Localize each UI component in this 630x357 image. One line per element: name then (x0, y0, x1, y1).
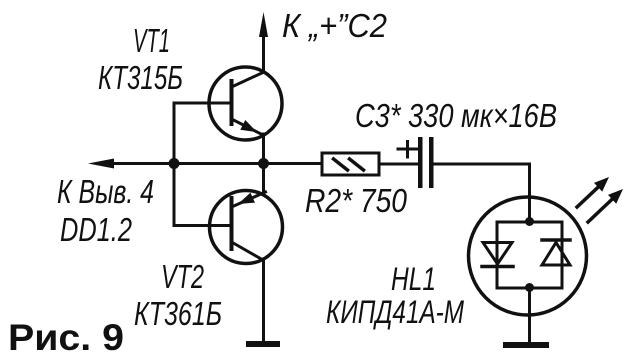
resistor R2 body (322, 153, 379, 175)
svg-text:КТ315Б: КТ315Б (98, 59, 183, 96)
ground (LED) (503, 342, 549, 348)
svg-text:К „+”С2: К „+”С2 (282, 7, 387, 44)
LED HL1 envelope circle (469, 197, 587, 315)
wire output horizontal (108, 162, 264, 165)
wire LED internal rectangle (497, 222, 562, 288)
light emission arrow 1 (577, 185, 600, 207)
transistor VT2 emitter arrowhead (PNP, pointing in) (238, 193, 255, 204)
transistor VT1 base bar (230, 81, 234, 124)
resistor R2 marking slashes (334, 159, 348, 170)
diode left cathode bar (482, 265, 513, 269)
wire VT1 base lead (174, 102, 232, 105)
arrow "К +С2" (up) (259, 12, 268, 37)
transistor VT2 collector lead (232, 242, 264, 260)
transistor VT1 emitter arrowhead (NPN, pointing out) (240, 120, 257, 132)
diode left (cathode down) triangle (483, 243, 512, 265)
svg-text:HL1: HL1 (391, 261, 436, 297)
svg-text:DD1.2: DD1.2 (60, 211, 132, 248)
svg-text:R2* 750: R2* 750 (305, 182, 408, 219)
svg-text:КИПД41А-М: КИПД41А-М (326, 294, 464, 330)
transistor VT2 emitter lead (232, 192, 266, 207)
wire LED bottom to ground (528, 288, 531, 342)
capacitor C3 right plate (429, 137, 434, 188)
svg-text:VT1: VT1 (133, 22, 170, 59)
diode right (cathode up) triangle (542, 243, 570, 266)
wire VT2 collector to ground (262, 259, 265, 341)
transistor VT1 collector lead (232, 72, 265, 87)
node LED top junction dot (525, 217, 534, 226)
arrow to К Выв.4 DD1.2 (left) (88, 159, 114, 169)
svg-text:К Выв. 4: К Выв. 4 (57, 173, 154, 210)
wire node to resistor R2 (264, 162, 323, 165)
svg-text:С3* 330 мк×16В: С3* 330 мк×16В (355, 97, 557, 134)
light emission arrow 2 (588, 199, 612, 222)
svg-text:VT2: VT2 (161, 258, 204, 295)
capacitor C3 left plate (418, 137, 423, 188)
ground (VT2 collector) (246, 341, 280, 347)
transistor Q2 VT2 circle (210, 191, 283, 264)
svg-text:Рис. 9: Рис. 9 (8, 317, 124, 357)
transistor VT1 emitter lead (232, 119, 264, 135)
wire collector VT1 to supply arrow (262, 34, 265, 72)
svg-text:КТ361Б: КТ361Б (134, 295, 222, 332)
wire capacitor to LED (434, 164, 530, 222)
wire VT1 emitter to node (262, 134, 265, 164)
capacitor C3 plus sign (398, 148, 417, 151)
node junction dot left (169, 158, 180, 169)
transistor VT2 base bar (230, 198, 234, 249)
node LED bottom junction dot (525, 283, 534, 292)
wire base rail vertical (174, 103, 232, 226)
transistor Q1 VT1 circle (209, 67, 282, 140)
diode right cathode bar (542, 238, 570, 242)
node junction dot emitters (258, 158, 269, 169)
wire node to VT2 emitter (262, 164, 265, 193)
wire resistor to capacitor C3 (379, 163, 418, 166)
